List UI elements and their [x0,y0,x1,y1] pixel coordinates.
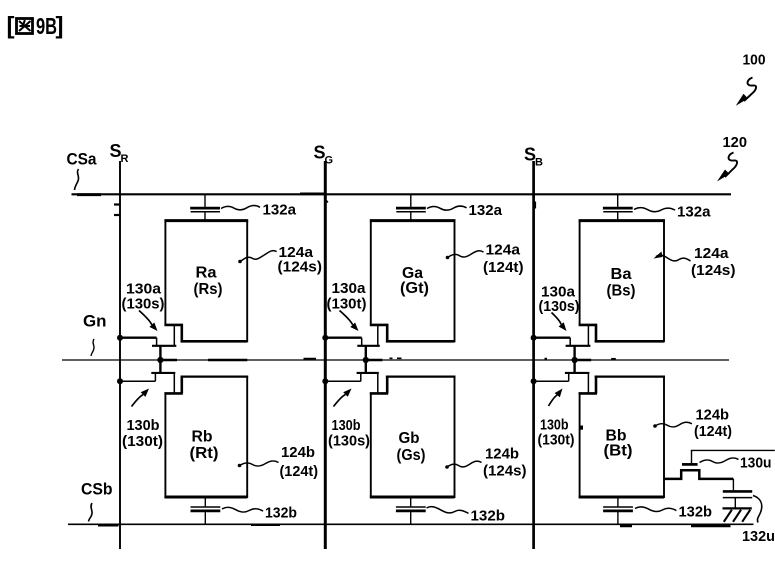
svg-text:Ba: Ba [611,266,632,283]
node: junction dot S-G / 130a source [322,335,328,341]
svg-text:Gn: Gn [83,312,107,331]
value label 124b (124t) for Rb [238,444,318,480]
label pixel Ra (Rs) [194,265,223,299]
label 130a (130s) for R with arrow [122,281,165,332]
svg-text:130a: 130a [332,280,367,297]
node: junction dot S-R / 130a source [117,335,123,341]
node: junction dot S-B / 130a source [531,335,537,341]
net label CSa [67,150,98,191]
svg-text:(130s): (130s) [122,296,165,313]
wire: S_R source line (vertical) [119,161,121,549]
value label 124a (124s) for Ba [654,245,736,279]
svg-text:100: 100 [743,53,766,69]
transistor 130a (B column, top TFT) [534,325,591,373]
svg-text:B: B [535,157,543,169]
svg-text:124b: 124b [696,407,730,424]
ground symbol [723,508,752,521]
capacitor 132b (B column, bottom) [603,497,633,524]
svg-text:120: 120 [723,134,748,151]
value label 132b (B) [635,504,712,521]
wire: thick gate segment at B channel [575,359,592,362]
svg-text:(124t): (124t) [694,423,732,440]
svg-text:CSb: CSb [81,480,113,499]
svg-text:132b: 132b [679,504,713,521]
wire: thick gate segment at R channel [160,359,177,362]
svg-text:(Bs): (Bs) [607,283,636,300]
svg-text:Gb: Gb [399,430,420,447]
label 130b (130t) for B with arrow [538,389,575,449]
svg-text:(124t): (124t) [280,463,319,480]
svg-text:(130t): (130t) [538,432,575,449]
capacitor 132b (R column, bottom) [191,497,221,524]
pixel electrode 124a (Ba) [579,221,665,343]
wire: thick gate segment under Ra box [208,359,247,362]
wire: horizontal line to 130u (right edge) [691,450,775,463]
svg-text:(124s): (124s) [483,463,527,480]
svg-text:Rb: Rb [192,429,213,446]
label pixel Ba (Bs) [607,266,636,300]
transistor 130a (R column, top TFT) [120,325,176,373]
capacitor 132a (R column, top) [190,194,220,220]
label 130a (130t) for G with arrow [327,280,367,331]
capacitor 132b (G column, bottom) [396,497,426,524]
pixel electrode 124b (Rb) [164,376,248,498]
figure title [ZU 9B] [7,13,64,40]
pixel electrode 124a (Ra) [164,221,248,343]
wire: 130u to capacitor 132u [732,479,734,490]
svg-text:132a: 132a [263,202,297,219]
reference label 120 with leader arrow [717,134,747,182]
node: junction dot gate line / TFT channel (G) [363,357,369,363]
wire: S_G source line (vertical) [324,161,327,549]
svg-text:9B: 9B [36,13,57,39]
svg-text:(124s): (124s) [691,262,736,279]
label pixel Ga (Gt) [400,265,429,297]
wire: Gn gate bus line (horizontal, middle) [62,358,729,360]
svg-text:G: G [325,155,334,167]
svg-text:[: [ [7,13,15,40]
svg-text:124a: 124a [486,242,521,259]
svg-text:(130s): (130s) [539,298,580,315]
capacitor 132a (B column, top) [603,194,633,220]
capacitor 132a (G column, top) [396,194,426,220]
value label 130u with leader [700,455,772,472]
net label S_B [524,145,543,169]
tick mark on S_G below CSa [326,201,328,203]
svg-text:(Gs): (Gs) [397,447,426,464]
svg-text:Ra: Ra [196,265,217,282]
svg-text:(Bt): (Bt) [604,443,633,460]
wire: thick gate segment at G channel [366,359,383,362]
node: junction dot S-G / 130b source [322,378,328,384]
svg-text:(130t): (130t) [122,433,163,450]
svg-text:124a: 124a [694,245,729,262]
label 130b (130t) for R with arrow [122,389,163,451]
wire: S_B source line (vertical) [532,161,535,549]
svg-text:130b: 130b [332,417,361,434]
transistor 130b (B column, bottom TFT) [534,373,590,394]
svg-text:(130s): (130s) [328,433,370,450]
svg-text:(130t): (130t) [327,296,367,313]
label 130b (130s) for G with arrow [328,389,370,450]
svg-text:(Gt): (Gt) [400,280,429,297]
value label 132a (G) [427,202,503,219]
transistor 130a (G column, top TFT) [325,325,380,373]
svg-text:130b: 130b [127,417,160,434]
tick marks on S_R below CSa [114,205,120,216]
svg-text:(Rs): (Rs) [194,281,223,298]
transistor 130b (G column, bottom TFT) [325,373,379,394]
value label 124b (124t) for Bb [653,407,732,441]
capacitor 132u [723,491,752,507]
tick mark on S_B below CSa [535,202,537,209]
node: junction dot S-R / 130b source [117,378,123,384]
svg-text:R: R [121,153,129,165]
svg-text:132b: 132b [471,508,506,525]
svg-text:132b: 132b [265,505,297,522]
svg-text:(Rt): (Rt) [190,445,219,462]
svg-text:130u: 130u [740,455,772,472]
transistor 130u (top electrode bar) [682,463,698,466]
net label S_G [314,143,334,167]
svg-text:(124s): (124s) [278,259,323,276]
net label S_R [110,141,129,165]
value label 132a (B) [634,204,711,221]
value label 132a (R) [221,202,297,219]
value label 124a (124s) for Ra [238,244,322,276]
label pixel Rb (Rt) [190,429,219,463]
transistor 130u (bottom stepped electrode from Bb pixel) [664,470,734,479]
pixel electrode 124b (Gb) [370,376,456,498]
svg-text:132a: 132a [677,204,711,221]
artifact blob on Bb left edge [580,426,583,430]
label pixel Gb (Gs) [397,430,426,464]
node: junction dot S-B / 130b source [531,378,537,384]
svg-text:]: ] [56,13,64,40]
reference label 100 with leader arrow [736,53,766,106]
svg-text:124b: 124b [485,446,519,463]
transistor 130b (R column, bottom TFT) [120,373,175,394]
label pixel Bb (Bt) [604,428,633,460]
svg-text:124b: 124b [281,444,315,461]
node: junction dot gate line / TFT channel (B) [572,357,578,363]
label 130a (130s) for B with arrow [539,284,580,332]
node: junction dot gate line / TFT channel (R) [157,357,163,363]
wire: CSa storage-capacitor bus line (horizontal, top) [72,193,732,196]
value label 132b (G) [427,507,506,525]
net label Gn [83,312,107,357]
value label 132u with curved leader [742,496,775,546]
net label CSb [81,480,113,522]
svg-text:(124t): (124t) [483,259,524,276]
svg-text:CSa: CSa [67,150,98,169]
pixel electrode 124a (Ga) [370,221,456,343]
value label 124b (124s) for Gb [445,446,526,480]
wire: CSb storage-capacitor bus line (horizontal, bottom) [68,524,754,526]
svg-text:132a: 132a [469,202,503,219]
svg-text:132u: 132u [742,528,775,545]
pixel electrode 124b (Bb) [579,376,665,498]
value label 124a (124t) for Ga [446,242,524,277]
value label 132b (R) [222,505,297,522]
